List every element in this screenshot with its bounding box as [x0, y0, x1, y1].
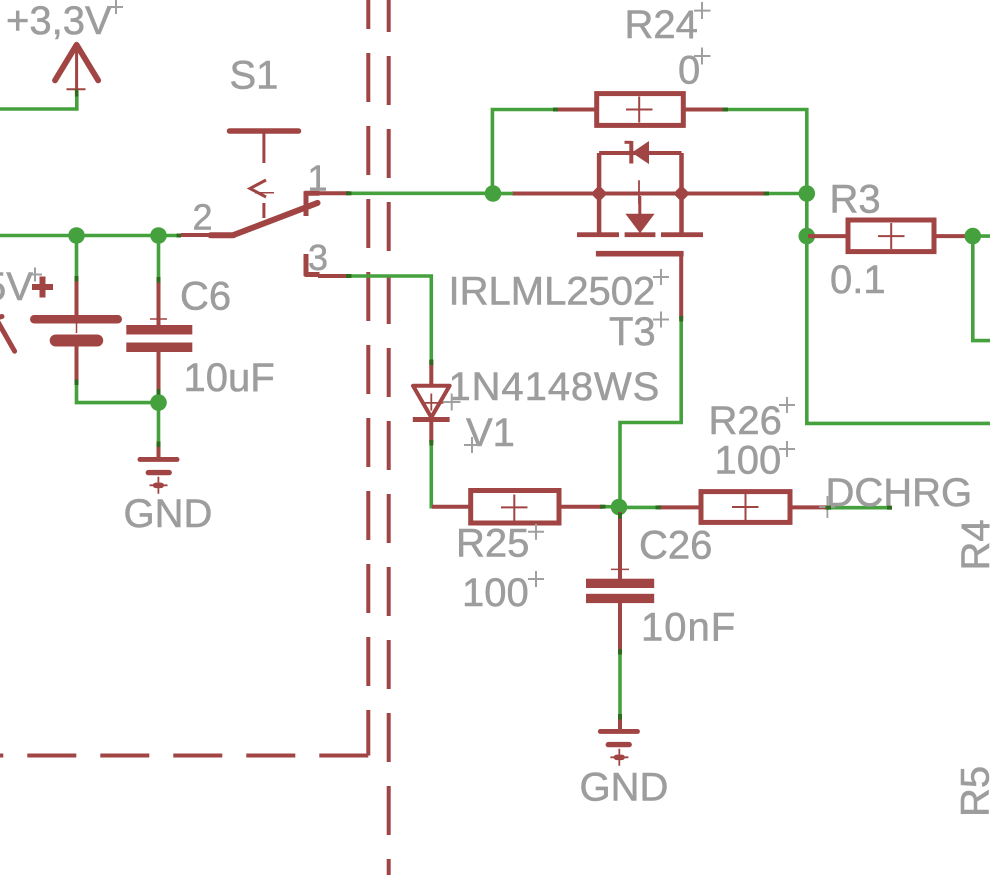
svg-text:1N4148WS: 1N4148WS [449, 365, 661, 409]
cross V1 origin [464, 437, 480, 453]
wire R24 left green [492, 110, 556, 195]
node dot R3 left [799, 228, 816, 245]
cross 5V origin [28, 268, 42, 282]
svg-text:C26: C26 [639, 524, 712, 568]
wire mosfet row red [512, 192, 766, 196]
node dot rail-C6 [150, 227, 167, 244]
wire +3.3V feed [0, 91, 77, 109]
svg-text:R3: R3 [830, 178, 881, 222]
svg-text:V1: V1 [466, 411, 515, 455]
switch S1 [181, 131, 320, 276]
svg-text:GND: GND [580, 766, 669, 810]
battery G1 plates [30, 315, 122, 347]
cross R25 origin [528, 524, 544, 540]
wire R3 right down to edge [973, 236, 990, 341]
cross R24 origin [694, 2, 711, 19]
svg-text:+3,3V: +3,3V [6, 0, 112, 43]
battery G1 top pin [75, 277, 79, 316]
svg-text:R24: R24 [625, 3, 698, 47]
capacitor C26 top pin [618, 512, 622, 579]
battery plus polarity mark [32, 277, 53, 298]
svg-text:S1: S1 [230, 54, 279, 98]
wire V1 to R25 [431, 442, 434, 507]
node dot rail-battery [68, 227, 85, 244]
svg-text:R25: R25 [456, 522, 529, 566]
capacitor C6 plates [126, 325, 192, 352]
supply +3,3V symbol [55, 45, 98, 97]
overlap segments wire-pin [77, 110, 893, 720]
wire dot to mosfet green sliver [501, 192, 513, 196]
resistor R25 [471, 491, 559, 524]
wire R25 right green [602, 505, 612, 509]
svg-text:100: 100 [462, 571, 529, 615]
wire node to R26 green [619, 506, 659, 510]
node dot R25-R26-C26 [611, 499, 628, 516]
dashed frame vertical line right [387, 0, 391, 875]
resistor R25 pins [432, 505, 471, 509]
wire switch pin1 red [318, 191, 349, 195]
wire switch pin3 green to V1 [349, 276, 432, 361]
svg-text:5V: 5V [0, 265, 33, 309]
svg-text:T3: T3 [609, 310, 656, 354]
resistor R24 pins [555, 108, 597, 112]
battery G1 bottom pin [75, 347, 79, 383]
cross 100b origin [779, 441, 795, 457]
dashed frame horizontal line bottom-left [0, 754, 368, 758]
diode V1 top pin [429, 360, 433, 386]
svg-text:GND: GND [124, 492, 213, 536]
dashed frame vertical line left [366, 0, 370, 756]
cross T3 origin [653, 312, 669, 328]
resistor R24 [597, 94, 684, 126]
node dot C6 bottom [150, 394, 167, 411]
wire switch pin1 green [349, 192, 494, 196]
cross 0 origin [694, 48, 711, 65]
svg-text:C6: C6 [180, 275, 231, 319]
svg-text:DCHRG: DCHRG [826, 471, 973, 515]
cross DCHRG origin [819, 496, 835, 518]
cross C6 origin [150, 318, 167, 320]
cross +3,3V origin [107, 0, 123, 14]
wire switch pin3 red [318, 274, 349, 278]
wire C6 top [157, 236, 161, 280]
svg-text:10uF: 10uF [184, 356, 275, 400]
gnd pin bottom [618, 716, 622, 729]
svg-text:10nF: 10nF [641, 606, 736, 650]
cross IRLML2502 origin [653, 269, 669, 285]
node dot gate rail [485, 185, 502, 202]
svg-text:100: 100 [715, 439, 782, 483]
resistor R3 pins [808, 234, 849, 238]
cross 100 origin [528, 571, 544, 587]
svg-text:R26: R26 [709, 399, 782, 443]
ground symbol left [138, 457, 180, 494]
resistor R26 pins [658, 505, 702, 509]
diode V1 bottom pin [429, 420, 433, 443]
capacitor C26 bottom pin [618, 603, 622, 652]
capacitor C6 top pin [157, 278, 161, 326]
wire battery bottom to C6 bottom node [77, 381, 159, 403]
capacitor C26 plates [586, 579, 654, 603]
wire R24 right green [725, 110, 990, 424]
resistor R26 [701, 492, 790, 523]
wire C26 to gnd [618, 651, 622, 717]
svg-text:2: 2 [193, 197, 213, 238]
wire mosfet row green right [766, 192, 807, 196]
cross 1N4148WS origin [443, 394, 461, 411]
gnd pin left [157, 443, 161, 458]
wire T3 gate down green [620, 318, 681, 500]
wire battery top [75, 236, 79, 279]
wire DCHRG stub [827, 506, 892, 510]
battery edge-clipped diagonal [0, 317, 15, 352]
svg-text:R4: R4 [954, 519, 990, 570]
svg-text:R5: R5 [954, 766, 990, 817]
diode V1 [413, 386, 450, 420]
svg-text:0.1: 0.1 [830, 258, 886, 302]
node dot mosfet right [799, 185, 816, 202]
wire R3 right to edge [973, 234, 990, 238]
cross R26 origin [779, 397, 795, 413]
cross C26 origin [611, 568, 629, 570]
transistor T3 mosfet [577, 141, 703, 319]
node dot R3 right [965, 228, 982, 245]
capacitor C6 bottom pin [157, 352, 161, 392]
resistor R3 [848, 220, 934, 252]
svg-text:IRLML2502: IRLML2502 [449, 270, 656, 314]
wire C6 bottom to gnd [157, 391, 161, 444]
ground symbol bottom [598, 729, 640, 766]
wire main 5V rail [0, 234, 181, 238]
svg-text:3: 3 [308, 237, 328, 278]
